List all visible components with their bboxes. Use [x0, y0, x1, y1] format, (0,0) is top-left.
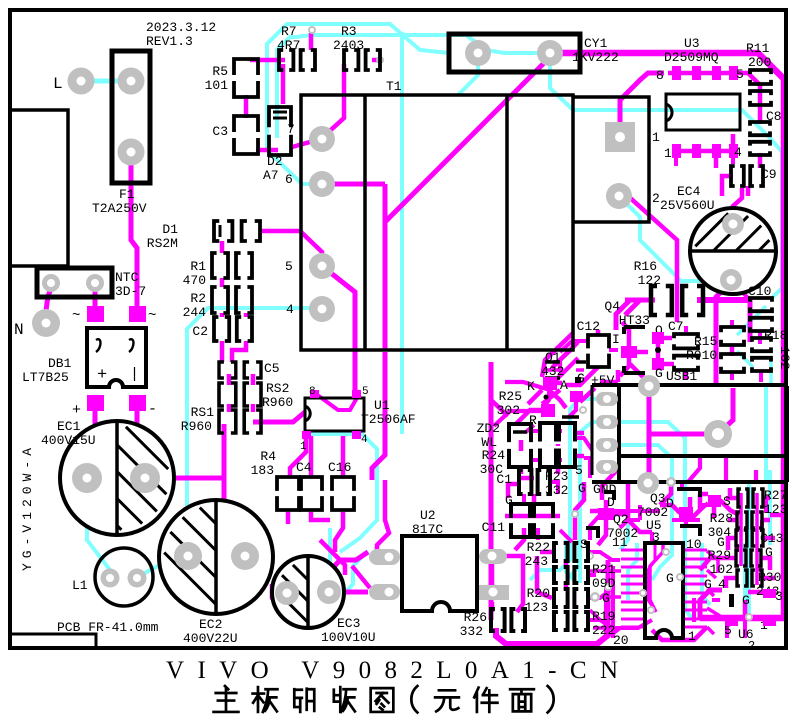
resistor R2 — [212, 287, 252, 313]
capacitor C11 — [511, 504, 530, 537]
pad A square — [570, 391, 583, 402]
svg-text:1: 1 — [652, 130, 660, 145]
wire R30 link — [726, 578, 775, 588]
wire D1-R1-R2-C2 links — [222, 241, 246, 317]
wire ZD2 R24 links — [519, 440, 534, 478]
wire CY1 to right edge — [550, 53, 784, 615]
capacitor EC1 — [60, 421, 174, 535]
svg-text:R1: R1 — [190, 259, 206, 274]
wire K A pads — [549, 383, 566, 408]
svg-text:8: 8 — [656, 68, 664, 83]
resistor R23b — [559, 423, 575, 467]
wire U3 bottom pin row — [676, 149, 736, 154]
wire via row to big via — [649, 432, 716, 437]
wire under usb web2 — [628, 483, 652, 532]
wire right edge stub — [770, 513, 784, 518]
wire under usb web1 — [575, 482, 584, 540]
resistor R30 — [737, 570, 762, 586]
wire R7 right pad stub — [309, 33, 314, 50]
AC pads to DB1 — [87, 306, 104, 322]
svg-text:Q1: Q1 — [545, 350, 561, 365]
title hanzi ） — [548, 686, 554, 712]
wire C8 to C9 — [758, 153, 763, 168]
wire cyan 749 vertical — [747, 483, 751, 614]
svg-text:-: - — [148, 401, 157, 418]
capacitor C3 — [234, 116, 258, 154]
title hanzi （ — [411, 686, 417, 712]
svg-text:R20: R20 — [527, 586, 550, 601]
wire q1 pads link — [545, 368, 584, 372]
T1 pin6 — [309, 171, 335, 197]
wire gnd bracket link — [604, 500, 609, 508]
svg-text:R18: R18 — [764, 328, 787, 343]
wire q2 links2 — [590, 515, 652, 545]
resistor R5 — [234, 59, 258, 97]
wire stadium pads — [369, 549, 400, 565]
svg-text:~: ~ — [148, 308, 156, 324]
svg-text:4: 4 — [734, 145, 742, 160]
svg-text:102: 102 — [777, 346, 792, 369]
capacitor EC4 — [690, 208, 776, 294]
wire C12 area — [542, 330, 598, 404]
DB1 output pads — [87, 395, 104, 411]
U6 pads — [763, 589, 776, 598]
wire cyan vertical through T1 — [400, 32, 404, 434]
wire below usb h runs — [614, 505, 700, 528]
title hanzi 版 — [334, 687, 356, 712]
wire EC2 right pad stub — [245, 554, 258, 559]
wire R16 to EC4 — [697, 297, 750, 303]
wire S pad link — [720, 500, 739, 515]
svg-text:244: 244 — [183, 305, 207, 320]
svg-text:~: ~ — [72, 308, 80, 324]
svg-text:102: 102 — [710, 562, 733, 577]
svg-text:R22: R22 — [527, 540, 550, 555]
U3 top pins — [672, 66, 681, 80]
svg-text:USB1: USB1 — [666, 369, 697, 384]
svg-text:C5: C5 — [264, 361, 280, 376]
wire cyan USB pin3 — [606, 445, 672, 580]
wire u6 squares — [725, 623, 729, 638]
wire RS1 to U1 — [253, 412, 305, 422]
wire GND stub — [660, 482, 671, 505]
via u5 a — [662, 548, 670, 556]
svg-text:09D: 09D — [592, 576, 616, 591]
svg-text:4R7: 4R7 — [277, 38, 300, 53]
wire r29 to left — [700, 558, 726, 570]
svg-text:D1: D1 — [162, 222, 178, 237]
pad G small — [590, 592, 600, 602]
T1 pin2 — [606, 183, 632, 209]
svg-text:C3: C3 — [212, 124, 228, 139]
wire C7 squares — [658, 338, 674, 364]
wire bottom right thick — [700, 615, 784, 622]
via small f — [604, 583, 612, 591]
diode ZD2 — [509, 424, 531, 467]
wire q4 right stub — [637, 350, 648, 355]
wire usb corner down — [602, 468, 619, 500]
wire cyan right low vertical — [768, 470, 772, 545]
wire c12 links — [560, 341, 618, 352]
wire cyan Q area — [620, 490, 628, 550]
IC U3 — [666, 94, 740, 130]
svg-text:R25: R25 — [499, 389, 522, 404]
pad Q2 gate — [679, 507, 693, 519]
wire C11 area branch — [491, 400, 508, 416]
wire EC4 bottom down — [716, 282, 731, 386]
svg-text:200: 200 — [748, 55, 771, 70]
wire stadium diag2 — [320, 540, 370, 588]
resistor R3 — [344, 50, 380, 70]
svg-text:C8: C8 — [766, 109, 782, 124]
via u5 c — [647, 606, 655, 614]
bracket under A — [562, 415, 579, 419]
transistor Q4 — [624, 327, 645, 373]
wire u5 inside diag — [650, 543, 663, 612]
svg-text:C2: C2 — [192, 324, 208, 339]
svg-text:C12: C12 — [577, 319, 600, 334]
wire Q4 to via — [630, 364, 649, 383]
wire C9 down — [722, 176, 748, 196]
wire cyan U1 pin area — [306, 434, 377, 552]
pad L input — [68, 68, 95, 95]
wire U1 pin1 to R4 — [290, 436, 306, 477]
wire R3 right pad stub — [372, 58, 380, 63]
wire U3 top pin row — [668, 71, 738, 76]
wire U5 right pins — [683, 549, 707, 552]
wire C11 area — [489, 362, 494, 620]
svg-text:Q2: Q2 — [613, 512, 629, 527]
svg-text:EC1: EC1 — [57, 419, 81, 434]
svg-text:RS2: RS2 — [266, 381, 289, 396]
IC U5 — [645, 543, 683, 638]
svg-text:G: G — [742, 593, 750, 608]
wire Q4 pad down — [620, 322, 629, 376]
wire D2 to C3 — [256, 148, 278, 153]
svg-text:817C: 817C — [412, 522, 443, 537]
svg-text:G: G — [666, 571, 674, 586]
svg-text:R960: R960 — [262, 395, 293, 410]
svg-text:NTC: NTC — [115, 270, 139, 285]
svg-text:101: 101 — [205, 78, 229, 93]
svg-text:ZD2: ZD2 — [477, 421, 500, 436]
USB pins — [596, 392, 618, 406]
resistor R18 — [752, 338, 771, 371]
transistor Q3 — [677, 489, 700, 497]
svg-text:REV1.3: REV1.3 — [146, 34, 193, 49]
svg-text:DB1: DB1 — [48, 356, 72, 371]
wire zd2 r23 web — [532, 431, 592, 478]
wire c7 stubs — [684, 326, 688, 380]
via small gnd — [666, 477, 676, 487]
U1 pins — [310, 390, 319, 398]
svg-text:U1: U1 — [374, 398, 390, 413]
wire U2 pads — [490, 563, 495, 612]
svg-text:G: G — [578, 481, 586, 496]
capacitor C12 — [588, 335, 609, 367]
svg-text:CY1: CY1 — [584, 36, 608, 51]
wire q3 links — [660, 494, 700, 518]
left inner block — [10, 110, 68, 266]
wire R2x to U5 — [587, 552, 620, 628]
wire EC4 to C10 diag — [733, 283, 748, 298]
wire cyan EC1 to L1 — [87, 478, 110, 578]
svg-text:R24: R24 — [482, 448, 506, 463]
wire stadium to R26 — [506, 556, 523, 612]
svg-text:R29: R29 — [708, 548, 731, 563]
resistor group RS C5 — [219, 362, 261, 378]
svg-text:R11: R11 — [746, 41, 770, 56]
wire T1 corner diagonals — [542, 333, 578, 377]
wire U3 pin stub down — [716, 134, 733, 168]
wire c11 to q2 — [538, 528, 572, 542]
wire D1 to T1 pin5 — [260, 231, 322, 264]
wire R27 link — [730, 488, 770, 498]
wire right col verticals — [741, 493, 757, 585]
title hanzi 板 — [253, 687, 278, 712]
svg-text:R21: R21 — [592, 562, 616, 577]
via small a — [308, 26, 316, 34]
resistor R23a — [540, 423, 556, 467]
capacitor EC2 — [159, 500, 273, 614]
svg-text:100V10U: 100V10U — [321, 630, 376, 645]
wire big via up — [718, 388, 733, 434]
wire C16 down to EC3 — [335, 512, 343, 552]
svg-text:C4: C4 — [296, 460, 312, 475]
wire C11 row — [505, 516, 560, 550]
wire cyan T1 pin4 to EC2 — [187, 308, 322, 556]
svg-text:5: 5 — [575, 463, 583, 478]
svg-text:T2506AF: T2506AF — [361, 412, 416, 427]
wire U6 links — [745, 592, 770, 618]
wire C2 to C5 link — [222, 341, 246, 362]
wire CY1 right pad diagonal — [385, 57, 550, 222]
wire u5 left thick — [606, 560, 611, 636]
wire RS group links — [229, 374, 253, 412]
wire cyan top loop inner — [277, 35, 540, 138]
wire x385 below T1 — [372, 352, 385, 480]
wire D2 to T1 pin7 — [292, 139, 322, 147]
wire cyan EC3 loop — [279, 593, 318, 617]
resistor R22 — [554, 543, 588, 561]
svg-text:11: 11 — [612, 535, 628, 550]
wire R4 C4 bottoms — [288, 512, 330, 524]
svg-text:6: 6 — [285, 172, 293, 187]
resistor RS1 — [219, 410, 261, 433]
svg-text:C7: C7 — [668, 319, 684, 334]
svg-text:I: I — [612, 332, 620, 347]
svg-text:S: S — [723, 494, 731, 509]
wire R23 links — [558, 433, 584, 474]
svg-text:122: 122 — [638, 273, 661, 288]
svg-text:D2: D2 — [267, 154, 283, 169]
wire cyan USB right vertical — [764, 386, 768, 480]
svg-text:VIVO V9082L0A1-CN: VIVO V9082L0A1-CN — [166, 657, 618, 684]
T1 pin4 — [309, 296, 335, 322]
wire R5 to R7 — [250, 58, 285, 63]
capacitor C13 — [736, 530, 763, 546]
svg-text:L1: L1 — [72, 578, 88, 593]
title hanzi 主 — [214, 686, 239, 712]
U2 pad rect — [479, 585, 509, 600]
capacitor C1 — [519, 470, 550, 494]
wire U1 internal — [316, 394, 358, 410]
wire bottom right small — [652, 628, 706, 640]
wire u3 pin stubs — [676, 158, 733, 166]
wire u5 right pins out — [707, 551, 720, 634]
svg-text:EC3: EC3 — [337, 616, 360, 631]
resistor R26 — [491, 609, 525, 631]
svg-text:U2: U2 — [420, 508, 436, 523]
via usb top — [638, 375, 660, 397]
capacitor EC3 — [272, 556, 344, 628]
svg-text:1: 1 — [664, 146, 672, 161]
wire R29 link — [726, 558, 770, 570]
wire NTC right pad down — [93, 288, 98, 306]
svg-text:N: N — [14, 321, 24, 339]
title hanzi 件 — [474, 688, 497, 712]
svg-text:RS1: RS1 — [191, 405, 215, 420]
wire k region web2 — [526, 391, 549, 432]
svg-text:R15: R15 — [694, 334, 717, 349]
svg-text:1: 1 — [300, 441, 307, 453]
svg-text:D2509MQ: D2509MQ — [664, 50, 719, 65]
svg-text:T2A250V: T2A250V — [92, 201, 147, 216]
fuse F1 — [112, 51, 150, 183]
svg-text:243: 243 — [525, 554, 548, 569]
wire U5 left pins — [621, 549, 645, 552]
title hanzi 图 — [371, 688, 394, 712]
wire R16 left to Q4 — [616, 300, 651, 330]
resistor R27 — [738, 489, 763, 507]
wire u5 long runs — [590, 571, 621, 628]
via small b — [376, 56, 384, 64]
capacitor C9 — [731, 166, 763, 186]
wire T1 pin6 to junction — [326, 182, 385, 187]
wire bottom right up — [700, 590, 722, 618]
capacitor C8 — [750, 122, 770, 155]
svg-text:7: 7 — [287, 122, 295, 137]
capacitor C2 — [214, 317, 252, 341]
resistor R20 — [554, 589, 588, 607]
wire R11 to C8 — [758, 103, 763, 124]
svg-text:C9: C9 — [761, 167, 777, 182]
IC U2 — [402, 536, 477, 611]
wire cyan EC3 diag — [343, 551, 368, 595]
capacitor C10 — [750, 298, 772, 331]
resistor R11 — [750, 70, 771, 105]
inductor L1 — [95, 548, 153, 606]
wire bottom mid stairs — [610, 620, 652, 636]
title hanzi 元 — [435, 690, 459, 711]
T1 pin5 — [309, 253, 335, 279]
svg-text:222: 222 — [592, 623, 615, 638]
wire R28 link — [728, 518, 770, 523]
svg-text:A: A — [560, 378, 568, 393]
wire EC4 top pad up — [733, 188, 742, 224]
svg-text:R26: R26 — [464, 610, 487, 625]
svg-text:R3: R3 — [341, 24, 357, 39]
wire cyan EC4 to C10 — [731, 279, 748, 283]
wire EC2 area diagonals — [258, 543, 282, 606]
wire R7 to D2 — [281, 64, 286, 104]
svg-text:RS2M: RS2M — [147, 236, 178, 251]
thermistor NTC — [37, 268, 112, 297]
diode D1 — [214, 221, 260, 241]
svg-text:G: G — [704, 577, 712, 592]
resistor R7 — [279, 50, 315, 70]
IC U1 — [305, 398, 364, 431]
capacitor C16 — [332, 477, 354, 510]
connector USB1 — [592, 383, 787, 387]
svg-text:A7: A7 — [263, 168, 279, 183]
title hanzi 印 — [294, 689, 314, 712]
bridge DB1 — [87, 328, 146, 387]
svg-text:YG-V120W-A: YG-V120W-A — [20, 443, 35, 571]
wire cyan L-to-F1 — [81, 79, 131, 84]
svg-text:LT7B25: LT7B25 — [22, 370, 69, 385]
svg-text:470: 470 — [183, 273, 206, 288]
wire DB1 plus to EC1 — [87, 411, 95, 478]
wire R25 link — [516, 390, 542, 424]
wire T1 pin2 diagonal down — [628, 196, 677, 322]
resistor R28 — [737, 512, 762, 528]
svg-text:1KV222: 1KV222 — [572, 50, 619, 65]
wire cyan EC3 vertical — [330, 528, 337, 613]
svg-text:5: 5 — [362, 386, 369, 398]
transistor Q1 — [545, 362, 586, 378]
svg-text:332: 332 — [460, 624, 483, 639]
wire stadium link — [377, 480, 389, 553]
wire cyan CY1-left down — [458, 64, 478, 95]
pad S Q3 — [708, 495, 721, 507]
T1 square pad — [605, 122, 635, 152]
T1 pin7 — [309, 126, 335, 152]
via u5 b — [639, 589, 647, 597]
wire cyan USB pin1 to bottom — [530, 399, 607, 580]
svg-text:+: + — [97, 366, 107, 385]
svg-text:G: G — [602, 591, 610, 606]
svg-text:R28: R28 — [710, 511, 733, 526]
resistor R29 — [736, 550, 761, 566]
wire U3 pin5 to R11 — [738, 73, 760, 103]
wire C13 link — [728, 538, 775, 550]
svg-text:123: 123 — [764, 502, 787, 517]
svg-text:5: 5 — [285, 259, 293, 274]
wire U3 pin8 to T1 pad — [620, 73, 664, 124]
svg-text:C13: C13 — [760, 531, 783, 546]
svg-text:EC4: EC4 — [677, 184, 701, 199]
diode D2 — [269, 107, 291, 155]
svg-text:4: 4 — [361, 434, 368, 446]
capacitor CY1 — [449, 34, 580, 72]
svg-text:R27: R27 — [764, 488, 787, 503]
svg-text:EC2: EC2 — [199, 617, 222, 632]
wire Q2 area — [590, 511, 628, 545]
transistor Q2 — [598, 508, 614, 520]
wire cyan top loop outer — [267, 24, 449, 184]
svg-text:20: 20 — [613, 633, 629, 648]
svg-text:R960: R960 — [181, 419, 212, 434]
wire r27 links — [726, 498, 766, 571]
wire cyan U5 pins — [628, 543, 745, 615]
wire R16 left down — [625, 300, 655, 315]
svg-text:L: L — [53, 75, 63, 93]
wire u5 left thick2 — [611, 566, 615, 638]
svg-text:5: 5 — [736, 67, 744, 82]
via r19 g — [745, 613, 753, 621]
wire usb lower inside — [688, 456, 756, 482]
